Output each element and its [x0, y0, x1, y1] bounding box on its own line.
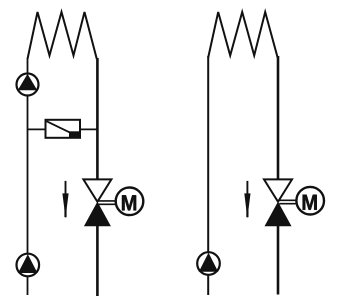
motor M1 circle [116, 188, 144, 216]
valve V2 upper port (open) [264, 179, 292, 201]
flow arrow (right circuit) head [244, 193, 250, 218]
valve V1 lower port (closed, filled) [84, 202, 111, 227]
actuator stem double line (right) [279, 199, 297, 201]
load zigzag (left circuit) [28, 12, 97, 59]
motor M2 circle [296, 187, 324, 215]
pump P3 impeller triangle [199, 253, 217, 271]
pump P3 chord line [199, 270, 218, 272]
valve V2 lower port (closed, filled) [265, 202, 292, 227]
wire: right riser upper segment (left circuit) [96, 58, 99, 181]
flow arrow (right circuit) shaft [246, 181, 248, 195]
valve V1 upper port (open) [83, 179, 111, 201]
wire: left riser (right circuit) [207, 56, 209, 295]
wire: left supply riser (left circuit) [27, 58, 29, 295]
pump P3 body [197, 252, 220, 275]
pump P2 body [17, 254, 40, 277]
wire: horizontal branch left part [28, 128, 47, 130]
pump P2 chord line [18, 271, 38, 273]
wire: horizontal branch right part [80, 128, 98, 130]
check valve seat block [69, 131, 80, 137]
wire: right riser upper segment (right circuit) [277, 56, 280, 181]
wire: right riser lower segment (left circuit) [96, 224, 99, 296]
wire: right riser lower segment (right circuit) [277, 224, 280, 295]
load zigzag (right circuit) [208, 12, 277, 58]
check valve flap diagonal [47, 121, 71, 132]
flow arrow (left circuit) head [62, 193, 68, 218]
pump P1 impeller triangle [18, 74, 37, 90]
actuator stem double line (left) [99, 200, 117, 202]
pump P1 chord line [18, 89, 38, 91]
pump P1 body [17, 74, 39, 96]
check valve body [46, 120, 81, 138]
flow arrow (left circuit) shaft [65, 181, 67, 195]
motor M2 label [303, 195, 317, 210]
motor M1 label [122, 195, 136, 210]
pump P2 impeller triangle [19, 254, 38, 272]
